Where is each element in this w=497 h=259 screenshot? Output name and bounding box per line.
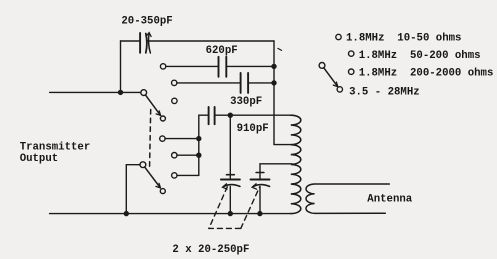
legend contact 3: 1.8MHz 200-2000 ohms bbox=[349, 69, 354, 74]
wire: right bus down to coil tap bbox=[274, 41, 291, 145]
legend switch pivot bbox=[319, 63, 325, 69]
switch S1a contact 1 (620pF) bbox=[160, 64, 165, 69]
svg-text:910pF: 910pF bbox=[237, 123, 269, 135]
transformer T1 primary winding bbox=[291, 115, 301, 213]
wire: top rail left segment bbox=[121, 40, 141, 42]
wire: transmitter output top lead bbox=[50, 91, 141, 93]
wire: 620pF branch right bbox=[226, 65, 274, 67]
svg-text:1.8MHz 200-2000 ohms: 1.8MHz 200-2000 ohms bbox=[359, 68, 494, 80]
switch S1b contact 2 bbox=[172, 153, 177, 158]
svg-text:Antenna: Antenna bbox=[367, 194, 412, 206]
junction: C5 to bottom rail bbox=[228, 211, 233, 216]
variable capacitor C6 20-250pF bbox=[251, 164, 293, 214]
switch S1a contact 3 (unused) bbox=[172, 98, 177, 103]
svg-text:620pF: 620pF bbox=[206, 45, 238, 57]
junction on 910 drop bbox=[196, 136, 201, 141]
wire: 910pF left drop bbox=[199, 115, 209, 175]
switch S1b contact 1 bbox=[160, 136, 165, 141]
switch S1a contact 2 (330pF) bbox=[172, 80, 177, 85]
wire: 910pF to coil top bbox=[215, 114, 293, 116]
switch S1b arm bbox=[145, 167, 161, 188]
transformer T1 secondary winding with antenna leads bbox=[306, 184, 389, 213]
switch S1b contact 4 (selected) bbox=[160, 189, 165, 194]
junction: S1b drop to bottom rail bbox=[124, 211, 129, 216]
capacitor C3 330pF bbox=[241, 73, 249, 93]
legend contact 4: 3.5-28MHz (selected) bbox=[337, 87, 342, 92]
wire: S1b pivot to bottom rail bbox=[126, 165, 140, 214]
wire: 330pF branch right bbox=[248, 82, 274, 84]
wire: contact 3 to 910 drop bottom bbox=[177, 174, 199, 176]
switch S1a pivot bbox=[141, 90, 147, 96]
wire: riser to top rail bbox=[120, 41, 122, 92]
wire: contact 2 to 910 drop bbox=[177, 154, 199, 156]
switch S1a contact 4 (selected) bbox=[160, 116, 165, 121]
svg-text:330pF: 330pF bbox=[230, 96, 262, 108]
legend contact 1: 1.8MHz 10-50 ohms bbox=[336, 34, 341, 39]
junction: C6 to bottom rail bbox=[257, 211, 262, 216]
svg-text:Output: Output bbox=[20, 153, 58, 165]
legend switch arm bbox=[324, 68, 338, 87]
svg-text:2 x 20-250pF: 2 x 20-250pF bbox=[172, 244, 249, 256]
label Transmitter Output bbox=[20, 142, 91, 165]
svg-text:20-350pF: 20-350pF bbox=[121, 16, 172, 28]
junction: 910pF / C5 top bbox=[228, 113, 233, 118]
junction on 910 drop bbox=[196, 153, 201, 158]
wire: 620pF branch left bbox=[166, 65, 219, 67]
junction: 330pF to bus bbox=[271, 80, 276, 85]
switch S1a arm bbox=[146, 95, 161, 115]
wire: top rail right segment bbox=[148, 40, 274, 42]
legend contact 2: 1.8MHz 50-200 ohms bbox=[349, 51, 354, 56]
variable capacitor C1 20-350pF bbox=[140, 33, 151, 53]
svg-text:1.8MHz 50-200 ohms: 1.8MHz 50-200 ohms bbox=[359, 50, 481, 62]
svg-text:3.5 - 28MHz: 3.5 - 28MHz bbox=[349, 86, 420, 98]
dashed callout to C5 and C6 bbox=[209, 187, 260, 229]
wire: bottom rail bbox=[50, 213, 291, 215]
variable capacitor C5 20-250pF bbox=[221, 115, 240, 213]
wire: contact 1 to 910 drop bbox=[165, 138, 199, 140]
wire: 330pF branch left bbox=[177, 82, 241, 84]
junction: 620pF to bus bbox=[271, 64, 276, 69]
switch S1b contact 3 bbox=[172, 173, 177, 178]
switch S1b pivot bbox=[140, 162, 146, 168]
svg-text:Transmitter: Transmitter bbox=[20, 142, 91, 154]
capacitor C4 910pF bbox=[209, 107, 215, 124]
svg-text:1.8MHz 10-50 ohms: 1.8MHz 10-50 ohms bbox=[346, 33, 461, 45]
capacitor C2 620pF bbox=[219, 57, 227, 77]
gang link S1a-S1b (dashed) bbox=[150, 110, 151, 171]
junction: top lead / riser bbox=[118, 90, 123, 95]
